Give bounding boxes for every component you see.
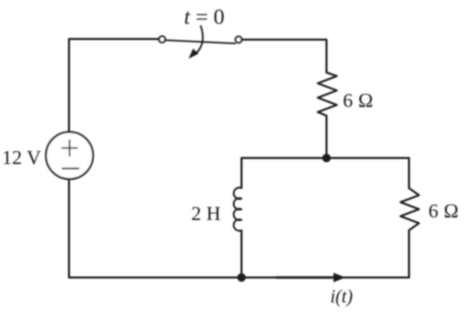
wire: bottom rail	[69, 277, 409, 279]
svg-text:6 Ω: 6 Ω	[428, 201, 458, 223]
svg-text:2 H: 2 H	[191, 203, 220, 225]
svg-text:12 V: 12 V	[2, 147, 42, 169]
wire: node A rail down-left branch to inductor top	[241, 158, 243, 188]
wire: R2 bottom to bottom rail	[408, 230, 410, 277]
svg-text:i(t): i(t)	[330, 288, 353, 308]
wire: top-left from source top up and right to switch left contact	[69, 39, 159, 132]
wire: source bottom to bottom-left corner	[68, 179, 70, 278]
wire: R1 bottom to node A	[326, 116, 328, 158]
node B (bottom junction)	[237, 273, 246, 282]
wire: inner loop top rail	[242, 157, 410, 159]
svg-text:t = 0: t = 0	[184, 4, 225, 29]
voltage source minus sign	[63, 168, 79, 170]
inductor L1 (2 H) coil	[234, 188, 242, 231]
wire: right branch down to R2	[408, 158, 410, 188]
voltage source V1 (12 V) circle	[46, 132, 93, 179]
resistor R1 (6 ohm, top right) zigzag	[318, 73, 337, 116]
wire: inductor bottom to node B	[241, 230, 243, 277]
switch S1 right contact circle	[236, 37, 242, 43]
switch S1 actuation arrow (curved, t=0 opening)	[196, 26, 203, 54]
wire: switch right contact to top-right corner and down to R1	[242, 40, 327, 73]
node A (junction of R1, L and R2 branch)	[322, 154, 331, 163]
voltage source plus sign	[62, 147, 77, 149]
resistor R2 (6 ohm, right) zigzag	[401, 188, 420, 230]
switch S1 blade	[166, 40, 236, 43]
current arrow i(t) on bottom wire	[277, 276, 337, 278]
switch S1 left contact circle	[159, 36, 165, 42]
svg-text:6 Ω: 6 Ω	[343, 90, 373, 112]
